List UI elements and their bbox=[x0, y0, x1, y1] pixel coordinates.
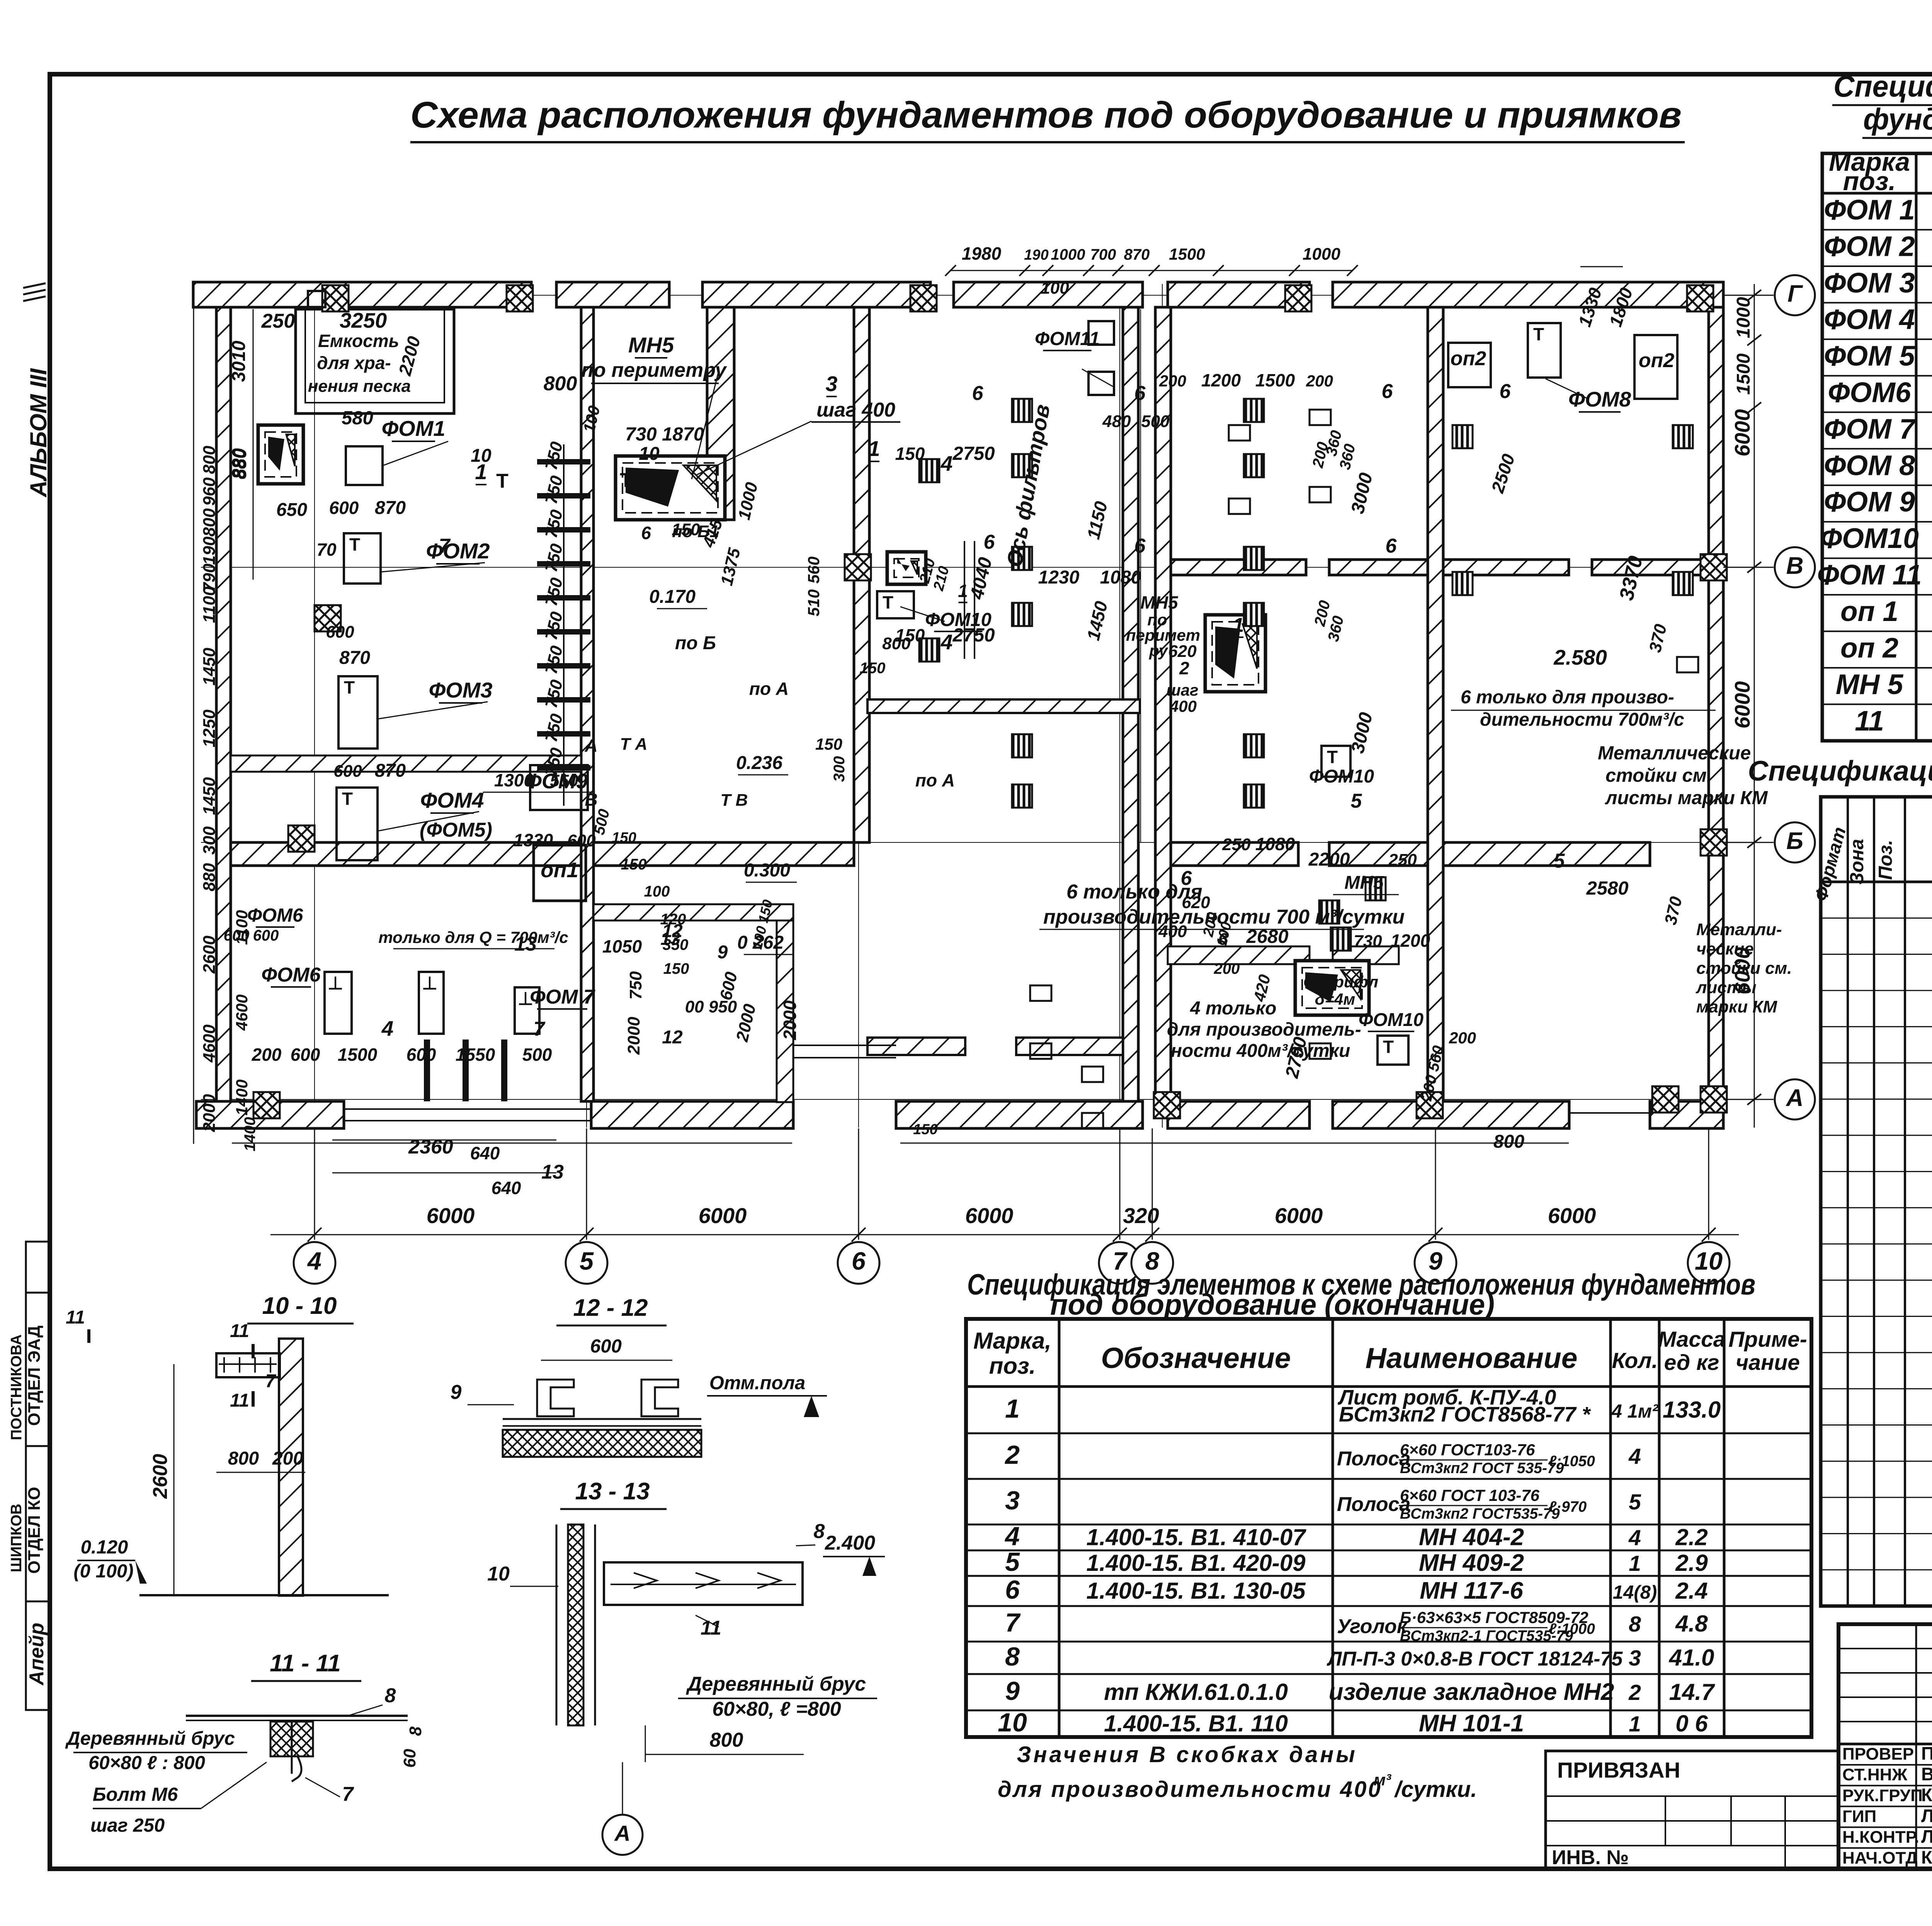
svg-text:4 только: 4 только bbox=[1190, 998, 1276, 1019]
svg-text:Т: Т bbox=[883, 592, 893, 613]
svg-text:Спецификация элементов фундаме: Спецификация элементов фундаментов под о… bbox=[1748, 755, 1932, 787]
svg-text:2.9: 2.9 bbox=[1675, 1550, 1708, 1576]
svg-text:60×80, ℓ =800: 60×80, ℓ =800 bbox=[712, 1698, 841, 1720]
svg-text:ФОМ 8: ФОМ 8 bbox=[1824, 450, 1915, 481]
svg-text:ПОСТНИКОВА: ПОСТНИКОВА bbox=[8, 1334, 25, 1440]
detail 12-12 bbox=[451, 1295, 827, 1457]
svg-text:190: 190 bbox=[1024, 247, 1048, 263]
svg-text:800: 800 bbox=[200, 446, 219, 474]
svg-text:ФОМ4: ФОМ4 bbox=[420, 788, 484, 812]
svg-text:5: 5 bbox=[1554, 850, 1565, 872]
svg-text:2.580: 2.580 bbox=[1553, 645, 1607, 669]
svg-text:ФОМ9: ФОМ9 bbox=[525, 769, 588, 793]
svg-text:по периметру: по периметру bbox=[581, 359, 727, 381]
svg-text:200: 200 bbox=[272, 1448, 303, 1469]
svg-text:Т: Т bbox=[620, 469, 632, 492]
svg-text:870: 870 bbox=[339, 648, 370, 668]
svg-text:1: 1 bbox=[958, 581, 968, 601]
svg-text:Схема расположения фундамент: Схема расположения фундаментов под обору… bbox=[410, 94, 1682, 136]
svg-text:870: 870 bbox=[375, 761, 406, 781]
svg-text:10: 10 bbox=[639, 444, 660, 464]
svg-text:3010: 3010 bbox=[229, 340, 249, 382]
svg-text:9: 9 bbox=[451, 1381, 462, 1404]
svg-text:750: 750 bbox=[626, 971, 645, 1000]
pit 2 MH5 bbox=[616, 456, 725, 520]
svg-text:6: 6 bbox=[852, 1247, 866, 1275]
svg-text:под оборудование (окончан: под оборудование (окончание) bbox=[1050, 1288, 1495, 1321]
svg-text:1: 1 bbox=[868, 436, 880, 461]
svg-text:МН5: МН5 bbox=[1140, 592, 1179, 613]
svg-text:Обозначение: Обозначение bbox=[1101, 1342, 1291, 1374]
svg-text:1400: 1400 bbox=[233, 1079, 251, 1115]
svg-text:шаг 250: шаг 250 bbox=[90, 1815, 165, 1836]
spec table 2 bbox=[1810, 797, 1932, 1613]
svg-text:2000: 2000 bbox=[200, 1094, 219, 1132]
svg-text:0.120: 0.120 bbox=[81, 1537, 128, 1558]
svg-text:1: 1 bbox=[1233, 614, 1244, 636]
svg-text:ФОМ2: ФОМ2 bbox=[426, 539, 490, 563]
svg-text:133.0: 133.0 bbox=[1663, 1397, 1721, 1423]
svg-text:6: 6 bbox=[1005, 1575, 1020, 1604]
svg-text:1080: 1080 bbox=[1255, 834, 1295, 854]
svg-text:880: 880 bbox=[230, 448, 250, 479]
svg-text:ФОМ6: ФОМ6 bbox=[261, 964, 321, 986]
svg-text:ФОМ 4: ФОМ 4 bbox=[1824, 304, 1915, 335]
svg-text:6: 6 bbox=[1382, 380, 1393, 403]
svg-text:Т: Т bbox=[1327, 747, 1338, 767]
svg-text:СТ.ННЖ: СТ.ННЖ bbox=[1842, 1765, 1907, 1784]
svg-text:2750: 2750 bbox=[952, 443, 995, 464]
svg-text:700: 700 bbox=[1090, 246, 1116, 263]
svg-text:ЛОУЦКЕР: ЛОУЦКЕР bbox=[1921, 1826, 1932, 1847]
spec table 3 title bbox=[967, 1268, 1755, 1321]
svg-text:ВСт3кп2 ГОСТ535-79: ВСт3кп2 ГОСТ535-79 bbox=[1400, 1506, 1560, 1522]
svg-text:4: 4 bbox=[940, 451, 953, 475]
svg-text:0.170: 0.170 bbox=[649, 587, 696, 607]
svg-text:7: 7 bbox=[534, 1018, 546, 1040]
svg-text:Металлические: Металлические bbox=[1598, 743, 1751, 764]
svg-text:ФОМ10: ФОМ10 bbox=[1359, 1010, 1423, 1030]
svg-text:ПРИВЯЗАН: ПРИВЯЗАН bbox=[1557, 1758, 1680, 1783]
gate bars bbox=[427, 1040, 504, 1101]
svg-text:ФОМ8: ФОМ8 bbox=[1568, 387, 1631, 411]
svg-text:Уголок: Уголок bbox=[1337, 1615, 1408, 1638]
svg-text:ℓ·970: ℓ·970 bbox=[1549, 1499, 1587, 1515]
svg-text:200: 200 bbox=[1159, 372, 1186, 390]
svg-text:Т А: Т А bbox=[620, 735, 648, 754]
svg-text:70: 70 bbox=[316, 539, 337, 560]
svg-text:4: 4 bbox=[1004, 1522, 1020, 1551]
svg-text:1980: 1980 bbox=[962, 243, 1002, 264]
svg-text:120: 120 bbox=[660, 911, 686, 928]
svg-text:Т: Т bbox=[1383, 1037, 1394, 1057]
svg-text:МН 409-2: МН 409-2 bbox=[1419, 1550, 1524, 1576]
svg-text:1200: 1200 bbox=[1201, 370, 1241, 390]
svg-text:ОТДЕЛ ЭАД: ОТДЕЛ ЭАД bbox=[25, 1325, 44, 1426]
svg-text:730 1870: 730 1870 bbox=[625, 424, 704, 445]
svg-text:150: 150 bbox=[815, 735, 842, 753]
svg-text:ФОМ6: ФОМ6 bbox=[1828, 377, 1911, 408]
svg-text:600: 600 bbox=[326, 623, 354, 641]
svg-text:А: А bbox=[584, 735, 597, 755]
svg-text:ФОМ 5: ФОМ 5 bbox=[1824, 340, 1915, 372]
svg-text:2: 2 bbox=[1004, 1440, 1020, 1470]
svg-text:250: 250 bbox=[1222, 835, 1251, 854]
svg-text:1500: 1500 bbox=[1169, 245, 1205, 263]
svg-text:РУК.ГРУП: РУК.ГРУП bbox=[1842, 1786, 1923, 1805]
svg-text:870: 870 bbox=[1124, 246, 1150, 263]
svg-text:620: 620 bbox=[1168, 642, 1197, 661]
svg-text:600: 600 bbox=[291, 1045, 320, 1065]
left dim chains bbox=[194, 305, 1569, 1198]
svg-text:(ФОМ5): (ФОМ5) bbox=[420, 819, 492, 841]
svg-text:НАЧ.ОТД: НАЧ.ОТД bbox=[1842, 1849, 1918, 1868]
svg-text:по А: по А bbox=[749, 679, 789, 699]
svg-text:Кол.: Кол. bbox=[1612, 1348, 1658, 1373]
svg-text:1: 1 bbox=[1629, 1712, 1641, 1737]
svg-text:Т: Т bbox=[349, 534, 360, 555]
svg-text:1: 1 bbox=[1005, 1394, 1020, 1424]
svg-text:Т В: Т В bbox=[721, 791, 748, 810]
svg-text:оп 1: оп 1 bbox=[1840, 596, 1898, 627]
svg-text:4600: 4600 bbox=[233, 994, 251, 1031]
svg-text:1.400-15. В1. 410-07: 1.400-15. В1. 410-07 bbox=[1086, 1524, 1306, 1550]
svg-text:800: 800 bbox=[544, 373, 577, 395]
svg-text:480: 480 bbox=[1102, 412, 1131, 431]
svg-text:11: 11 bbox=[230, 1390, 249, 1411]
svg-text:9: 9 bbox=[718, 942, 728, 963]
svg-text:14(8): 14(8) bbox=[1613, 1582, 1657, 1603]
svg-text:Деревянный брус: Деревянный брус bbox=[65, 1728, 235, 1749]
svg-text:1.400-15. В1. 130-05: 1.400-15. В1. 130-05 bbox=[1086, 1578, 1306, 1604]
spec table 1 title bbox=[1832, 69, 1932, 138]
svg-text:300: 300 bbox=[200, 826, 219, 855]
svg-text:5: 5 bbox=[1005, 1547, 1020, 1577]
svg-text:Т: Т bbox=[1533, 324, 1544, 344]
pit 4 st rifl bbox=[1295, 961, 1369, 1015]
svg-text:6000: 6000 bbox=[1730, 681, 1754, 728]
axis centerlines bbox=[201, 284, 1723, 1128]
svg-text:1: 1 bbox=[1629, 1551, 1641, 1576]
svg-text:1.400-15. В1. 420-09: 1.400-15. В1. 420-09 bbox=[1086, 1550, 1306, 1576]
dim chain 750 ladder bbox=[537, 440, 590, 806]
svg-text:листы: листы bbox=[1696, 978, 1756, 997]
svg-text:ФОМ10: ФОМ10 bbox=[1309, 766, 1374, 787]
svg-text:0 6: 0 6 bbox=[1675, 1711, 1708, 1737]
svg-text:7: 7 bbox=[265, 1371, 277, 1392]
svg-text:13: 13 bbox=[541, 1161, 564, 1183]
svg-text:по А: по А bbox=[915, 770, 955, 790]
svg-text:нения песка: нения песка bbox=[308, 377, 411, 396]
svg-text:Т: Т bbox=[496, 470, 509, 492]
svg-text:150: 150 bbox=[895, 444, 925, 464]
svg-text:320: 320 bbox=[1123, 1203, 1159, 1228]
svg-text:только для Q = 700м³/с: только для Q = 700м³/с bbox=[378, 928, 568, 947]
svg-text:4.8: 4.8 bbox=[1675, 1611, 1708, 1637]
svg-text:510: 510 bbox=[804, 589, 823, 616]
svg-text:8: 8 bbox=[1005, 1642, 1020, 1671]
svg-text:640: 640 bbox=[492, 1178, 521, 1198]
svg-text:14.7: 14.7 bbox=[1669, 1679, 1715, 1705]
svg-text:640: 640 bbox=[470, 1143, 500, 1163]
svg-text:1450: 1450 bbox=[200, 648, 219, 686]
svg-text:Спецификация элементов к схем: Спецификация элементов к схеме расположе… bbox=[1833, 69, 1932, 103]
svg-text:6: 6 bbox=[1134, 535, 1146, 557]
svg-text:960: 960 bbox=[200, 477, 219, 506]
svg-text:Значения В скобках даны: Значения В скобках даны bbox=[1017, 1742, 1357, 1767]
svg-text:250: 250 bbox=[1388, 851, 1417, 869]
svg-text:12 - 12: 12 - 12 bbox=[573, 1295, 648, 1321]
svg-text:марки КМ: марки КМ bbox=[1696, 997, 1777, 1016]
svg-text:тп КЖИ.61.0.1.0: тп КЖИ.61.0.1.0 bbox=[1104, 1679, 1288, 1705]
svg-text:Деревянный брус: Деревянный брус bbox=[686, 1673, 866, 1695]
svg-text:ности 400м³/сутки: ности 400м³/сутки bbox=[1171, 1041, 1350, 1061]
svg-text:6000: 6000 bbox=[699, 1203, 747, 1228]
svg-text:по Б: по Б bbox=[675, 633, 716, 653]
axis grid lines and bubbles bbox=[270, 275, 1815, 1284]
svg-text:6: 6 bbox=[972, 382, 984, 405]
svg-text:2: 2 bbox=[1179, 658, 1189, 678]
svg-text:100: 100 bbox=[644, 883, 670, 900]
section marks misc bbox=[66, 1307, 89, 1343]
svg-text:200: 200 bbox=[252, 1045, 282, 1065]
svg-text:δ=4м: δ=4м bbox=[1315, 990, 1355, 1008]
svg-text:8: 8 bbox=[1629, 1612, 1641, 1637]
svg-text:2000: 2000 bbox=[624, 1017, 643, 1055]
svg-text:600: 600 bbox=[329, 498, 359, 518]
anchor plates MN117 bbox=[919, 399, 1693, 951]
svg-text:870: 870 bbox=[375, 498, 406, 518]
svg-text:6000: 6000 bbox=[1275, 1203, 1323, 1228]
svg-text:Болт М6: Болт М6 bbox=[93, 1784, 178, 1805]
svg-text:оп2: оп2 bbox=[1639, 349, 1675, 372]
svg-text:1000: 1000 bbox=[1733, 297, 1754, 338]
svg-text:1400: 1400 bbox=[241, 1117, 259, 1152]
svg-text:11 - 11: 11 - 11 bbox=[270, 1650, 341, 1677]
svg-text:4 1м²: 4 1м² bbox=[1611, 1401, 1659, 1422]
svg-text:КРАСАВИН: КРАСАВИН bbox=[1921, 1847, 1932, 1868]
svg-text:ФОМ11: ФОМ11 bbox=[1035, 328, 1100, 349]
svg-text:Полоса: Полоса bbox=[1337, 1493, 1410, 1516]
plan labels bbox=[224, 328, 1792, 1152]
svg-text:Т: Т bbox=[344, 677, 355, 698]
svg-text:Н.КОНТР.: Н.КОНТР. bbox=[1842, 1828, 1919, 1847]
detail 13-13 bbox=[487, 1478, 885, 1855]
svg-text:650: 650 bbox=[276, 500, 307, 520]
svg-text:ЛП-П-3 0×0.8-В ГОСТ 18124-75: ЛП-П-3 0×0.8-В ГОСТ 18124-75 bbox=[1327, 1648, 1623, 1670]
svg-text:1500: 1500 bbox=[1733, 353, 1754, 395]
svg-text:фундаментов под оборудование: фундаментов под оборудование (начало) bbox=[1863, 102, 1932, 136]
album III margin text bbox=[26, 368, 51, 498]
svg-text:ℓ:1000: ℓ:1000 bbox=[1549, 1621, 1595, 1637]
svg-text:3250: 3250 bbox=[340, 308, 387, 332]
svg-text:600: 600 bbox=[590, 1336, 622, 1357]
svg-text:стойки см.: стойки см. bbox=[1696, 959, 1792, 978]
svg-text:ГИП: ГИП bbox=[1842, 1807, 1876, 1826]
svg-text:200: 200 bbox=[1449, 1029, 1476, 1047]
svg-text:ВУЛЬФ: ВУЛЬФ bbox=[1921, 1764, 1932, 1784]
svg-text:ФОМ1: ФОМ1 bbox=[381, 416, 445, 441]
top dim chain bbox=[945, 243, 1636, 329]
svg-text:8: 8 bbox=[814, 1520, 825, 1543]
svg-text:Т: Т bbox=[342, 789, 353, 809]
svg-text:190: 190 bbox=[200, 536, 219, 565]
svg-text:1000: 1000 bbox=[1051, 246, 1085, 263]
svg-text:2200: 2200 bbox=[1308, 849, 1350, 870]
svg-text:11: 11 bbox=[66, 1307, 85, 1328]
column markers bbox=[253, 285, 1727, 1118]
svg-text:150: 150 bbox=[913, 1121, 937, 1138]
svg-text:3: 3 bbox=[826, 372, 838, 396]
svg-text:1100: 1100 bbox=[200, 586, 219, 623]
svg-text:Апейр: Апейр bbox=[26, 1623, 48, 1686]
svg-text:5: 5 bbox=[1629, 1490, 1641, 1514]
svg-text:Ст рифл: Ст рифл bbox=[1303, 973, 1378, 991]
svg-text:Отм.пола: Отм.пола bbox=[709, 1373, 806, 1393]
svg-text:6 только для: 6 только для bbox=[1066, 881, 1202, 903]
svg-text:1500: 1500 bbox=[338, 1045, 378, 1065]
svg-text:для производительности 400: для производительности 400 bbox=[998, 1777, 1382, 1802]
svg-text:Емкость: Емкость bbox=[318, 331, 399, 351]
svg-text:6000: 6000 bbox=[965, 1203, 1014, 1228]
svg-text:Г: Г bbox=[1787, 281, 1803, 307]
svg-text:6: 6 bbox=[984, 531, 995, 553]
svg-text:2: 2 bbox=[1628, 1680, 1641, 1705]
svg-text:ФОМ3: ФОМ3 bbox=[429, 678, 492, 702]
svg-text:10: 10 bbox=[471, 446, 492, 466]
svg-text:для хра-: для хра- bbox=[317, 353, 391, 373]
svg-text:ВСт3кп2 ГОСТ 535-79: ВСт3кп2 ГОСТ 535-79 bbox=[1400, 1460, 1564, 1477]
svg-text:1080: 1080 bbox=[1100, 567, 1141, 588]
svg-text:3: 3 bbox=[1629, 1646, 1641, 1671]
svg-text:730: 730 bbox=[1354, 932, 1382, 951]
svg-text:2580: 2580 bbox=[1586, 878, 1628, 899]
svg-text:ФОМ 3: ФОМ 3 bbox=[1824, 267, 1915, 299]
svg-text:4600: 4600 bbox=[200, 1024, 219, 1063]
svg-text:МН 117-6: МН 117-6 bbox=[1420, 1577, 1523, 1604]
svg-text:300: 300 bbox=[831, 756, 848, 782]
svg-text:2600: 2600 bbox=[200, 936, 219, 974]
svg-text:ед кг: ед кг bbox=[1664, 1350, 1719, 1375]
svg-text:ОТДЕЛ КО: ОТДЕЛ КО bbox=[25, 1487, 44, 1574]
svg-text:6: 6 bbox=[1500, 380, 1511, 403]
svg-text:Полоса: Полоса bbox=[1337, 1448, 1410, 1470]
svg-text:1250: 1250 bbox=[200, 709, 219, 747]
svg-text:МН5: МН5 bbox=[628, 333, 674, 357]
svg-text:500: 500 bbox=[522, 1045, 552, 1065]
svg-text:11: 11 bbox=[230, 1321, 249, 1341]
svg-text:чание: чание bbox=[1736, 1350, 1800, 1375]
svg-text:листы марки КМ: листы марки КМ bbox=[1605, 788, 1768, 808]
spec table 3 bbox=[966, 1319, 1811, 1737]
svg-text:2.4: 2.4 bbox=[1675, 1578, 1708, 1604]
svg-text:2.2: 2.2 bbox=[1675, 1524, 1708, 1550]
svg-text:1500: 1500 bbox=[1255, 370, 1295, 390]
svg-text:В: В bbox=[1786, 553, 1804, 579]
svg-text:ФОМ10: ФОМ10 bbox=[1820, 523, 1919, 554]
svg-text:10: 10 bbox=[648, 473, 667, 492]
svg-text:ШИПКОВ: ШИПКОВ bbox=[8, 1504, 25, 1572]
svg-text:В: В bbox=[585, 789, 597, 810]
svg-text:60: 60 bbox=[400, 1749, 419, 1768]
svg-text:580: 580 bbox=[342, 408, 373, 429]
svg-text:2000: 2000 bbox=[780, 1000, 800, 1040]
svg-text:2.400: 2.400 bbox=[825, 1532, 875, 1554]
svg-text:м³: м³ bbox=[1374, 1771, 1391, 1789]
svg-text:7: 7 bbox=[439, 535, 451, 557]
svg-text:8: 8 bbox=[385, 1684, 396, 1707]
svg-text:БСт3кп2 ГОСТ8568-77 *: БСт3кп2 ГОСТ8568-77 * bbox=[1339, 1402, 1591, 1426]
svg-text:2750: 2750 bbox=[952, 625, 995, 646]
equipment foundations FOM boxes bbox=[325, 321, 1677, 1065]
svg-text:ФОМ 1: ФОМ 1 bbox=[1824, 194, 1915, 226]
spec table 1 bbox=[1817, 145, 1932, 741]
svg-text:ВСт3кп2-1 ГОСТ535-79: ВСт3кп2-1 ГОСТ535-79 bbox=[1400, 1628, 1573, 1644]
floor plan walls bbox=[193, 282, 1723, 1128]
svg-text:Поз.: Поз. bbox=[1875, 840, 1896, 880]
svg-text:ФОМ 2: ФОМ 2 bbox=[1824, 231, 1915, 262]
svg-text:600: 600 bbox=[224, 927, 250, 944]
svg-text:800: 800 bbox=[200, 508, 219, 537]
svg-text:6×60 ГОСТ 103-76: 6×60 ГОСТ 103-76 bbox=[1400, 1486, 1540, 1504]
svg-text:ℓ:1050: ℓ:1050 bbox=[1549, 1453, 1595, 1470]
svg-text:13 - 13: 13 - 13 bbox=[575, 1478, 650, 1505]
svg-text:9: 9 bbox=[1005, 1676, 1020, 1706]
svg-text:41.0: 41.0 bbox=[1669, 1645, 1714, 1671]
svg-text:шаг 400: шаг 400 bbox=[816, 399, 895, 421]
svg-text:ФОМ 7: ФОМ 7 bbox=[530, 986, 595, 1008]
svg-text:3: 3 bbox=[1005, 1486, 1020, 1515]
svg-text:оп 2: оп 2 bbox=[1840, 633, 1898, 664]
svg-text:оп1: оп1 bbox=[541, 858, 578, 882]
svg-text:350: 350 bbox=[663, 936, 689, 953]
svg-text:4: 4 bbox=[381, 1016, 394, 1040]
svg-text:6 только для произво-: 6 только для произво- bbox=[1461, 687, 1674, 708]
svg-text:производительности 700 м³/сутк: производительности 700 м³/сутки bbox=[1043, 906, 1405, 928]
detail 11-11 bbox=[65, 1650, 425, 1836]
svg-text:/сутки.: /сутки. bbox=[1394, 1777, 1477, 1802]
svg-text:8: 8 bbox=[406, 1726, 425, 1736]
svg-text:0.300: 0.300 bbox=[744, 860, 790, 881]
svg-text:дительности 700м³/с: дительности 700м³/с bbox=[1480, 709, 1684, 730]
svg-text:ФОМ 7: ФОМ 7 bbox=[1824, 413, 1916, 445]
svg-text:800: 800 bbox=[1493, 1131, 1524, 1152]
svg-text:по Б1: по Б1 bbox=[672, 522, 719, 541]
svg-text:2600: 2600 bbox=[149, 1454, 172, 1499]
svg-text:5: 5 bbox=[1351, 790, 1362, 812]
svg-text:150: 150 bbox=[663, 960, 689, 977]
svg-text:4: 4 bbox=[1628, 1526, 1641, 1550]
svg-text:1450: 1450 bbox=[200, 777, 219, 815]
svg-text:Металли-: Металли- bbox=[1696, 920, 1782, 939]
svg-text:10: 10 bbox=[487, 1563, 510, 1585]
svg-text:оп2: оп2 bbox=[1451, 347, 1486, 370]
svg-text:4: 4 bbox=[1628, 1444, 1641, 1469]
svg-text:600: 600 bbox=[406, 1045, 436, 1065]
svg-text:Наименование: Наименование bbox=[1366, 1342, 1578, 1374]
svg-text:7: 7 bbox=[342, 1783, 354, 1805]
svg-text:КРАСНОВА: КРАСНОВА bbox=[1921, 1785, 1932, 1805]
svg-text:11: 11 bbox=[701, 1617, 721, 1639]
svg-text:560: 560 bbox=[804, 556, 823, 584]
svg-text:880: 880 bbox=[200, 863, 219, 892]
svg-text:ФОМ 11: ФОМ 11 bbox=[1817, 560, 1922, 591]
svg-text:12: 12 bbox=[662, 1027, 683, 1048]
svg-text:ЛОУЦКЕР: ЛОУЦКЕР bbox=[1921, 1805, 1932, 1826]
svg-text:200: 200 bbox=[1214, 960, 1240, 977]
svg-text:А: А bbox=[614, 1821, 630, 1846]
svg-text:изделие закладное МН2: изделие закладное МН2 bbox=[1329, 1679, 1614, 1705]
